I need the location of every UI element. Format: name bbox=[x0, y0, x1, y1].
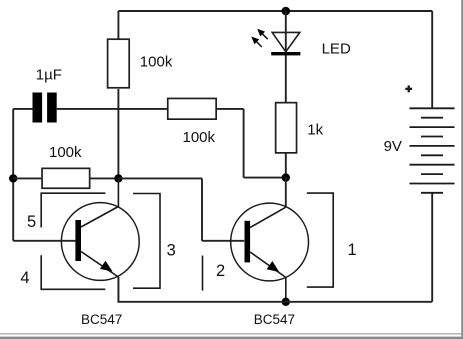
LED D1 cathode bar bbox=[271, 52, 300, 55]
transistor Q1 base bar bbox=[75, 220, 81, 261]
svg-text:100k: 100k bbox=[140, 54, 173, 71]
transistor Q1 collector lead bbox=[81, 178, 118, 227]
resistor R1 100k (vertical) bbox=[108, 39, 130, 88]
wire top rail bbox=[118, 10, 432, 12]
svg-text:1µF: 1µF bbox=[36, 67, 62, 84]
svg-text:5: 5 bbox=[27, 213, 36, 231]
wire battery minus to bottom rail bbox=[431, 193, 433, 302]
pin bracket 5 bbox=[41, 193, 105, 227]
wire R2 right bbox=[217, 108, 244, 110]
resistor R2 100k (horizontal) bbox=[168, 98, 216, 119]
transistor Q2 circle bbox=[231, 203, 309, 281]
wire top rail to LED anode bbox=[285, 11, 287, 103]
wire node B to the right bbox=[118, 177, 202, 179]
transistor Q1 circle bbox=[61, 203, 139, 281]
transistor Q2 collector lead bbox=[250, 207, 286, 227]
svg-text:BC547: BC547 bbox=[254, 312, 295, 327]
wire R1 bottom to node B bbox=[117, 89, 119, 178]
LED light arrow 2 bbox=[251, 37, 261, 48]
emitter node dot bbox=[282, 298, 290, 306]
wire node A to R3 left bbox=[13, 177, 41, 179]
node B dot bbox=[114, 174, 122, 182]
svg-text:100k: 100k bbox=[49, 144, 82, 161]
transistor Q1 emitter lead bbox=[81, 252, 118, 302]
battery BT1 plates bbox=[410, 108, 455, 193]
wire R4 bottom to node C bbox=[285, 154, 287, 178]
page border bottom rule bbox=[0, 333, 463, 334]
pin bracket 1 bbox=[307, 193, 333, 287]
battery plus sign bbox=[405, 85, 412, 92]
svg-text:2: 2 bbox=[216, 262, 225, 280]
wire R3 right to node B bbox=[91, 177, 119, 179]
resistor R3 100k (horizontal) bbox=[42, 168, 90, 188]
wire to node C bbox=[244, 177, 286, 179]
capacitor C1 left plate bbox=[33, 93, 43, 123]
wire left rail (C1 to Q1 base) bbox=[12, 109, 14, 241]
page border bottom band bbox=[0, 337, 463, 339]
wire left corner to C1 left plate bbox=[13, 108, 32, 110]
resistor R4 1k (vertical) bbox=[276, 103, 297, 153]
svg-text:BC547: BC547 bbox=[81, 312, 122, 327]
pin bracket 3 bbox=[133, 194, 160, 289]
svg-text:LED: LED bbox=[322, 40, 351, 57]
LED anode node dot bbox=[282, 7, 291, 16]
LED light arrow 1 bbox=[257, 29, 268, 40]
svg-text:4: 4 bbox=[20, 269, 29, 287]
LED D1 triangle bbox=[272, 32, 300, 51]
wire C1 right plate to R2 left bbox=[57, 108, 167, 110]
capacitor C1 right plate bbox=[47, 93, 57, 123]
svg-text:100k: 100k bbox=[183, 129, 216, 146]
wire top rail to battery plus bbox=[431, 11, 433, 109]
wire to Q2 base bbox=[202, 240, 244, 242]
wire down toward Q2 base bbox=[201, 178, 203, 240]
transistor Q1 emitter arrow bbox=[100, 261, 113, 272]
transistor Q2 emitter lead bbox=[250, 252, 286, 302]
wire down to Q2 collector node bbox=[243, 109, 245, 178]
svg-text:3: 3 bbox=[167, 241, 176, 259]
svg-text:1k: 1k bbox=[307, 121, 323, 138]
node A dot bbox=[9, 174, 17, 182]
wire node C to Q2 collector bbox=[285, 178, 287, 207]
node C dot bbox=[282, 173, 290, 181]
transistor Q2 emitter arrow bbox=[267, 261, 280, 272]
page border right bbox=[461, 0, 463, 339]
svg-text:1: 1 bbox=[348, 241, 357, 259]
pin bracket 4 bbox=[41, 255, 105, 289]
pin bracket 2 bbox=[202, 256, 204, 291]
wire Q1 base bbox=[13, 240, 75, 242]
transistor Q2 base bar bbox=[245, 221, 251, 263]
svg-text:9V: 9V bbox=[384, 138, 402, 155]
wire bottom rail bbox=[118, 277, 432, 302]
wire top rail to R1 top bbox=[117, 11, 119, 39]
